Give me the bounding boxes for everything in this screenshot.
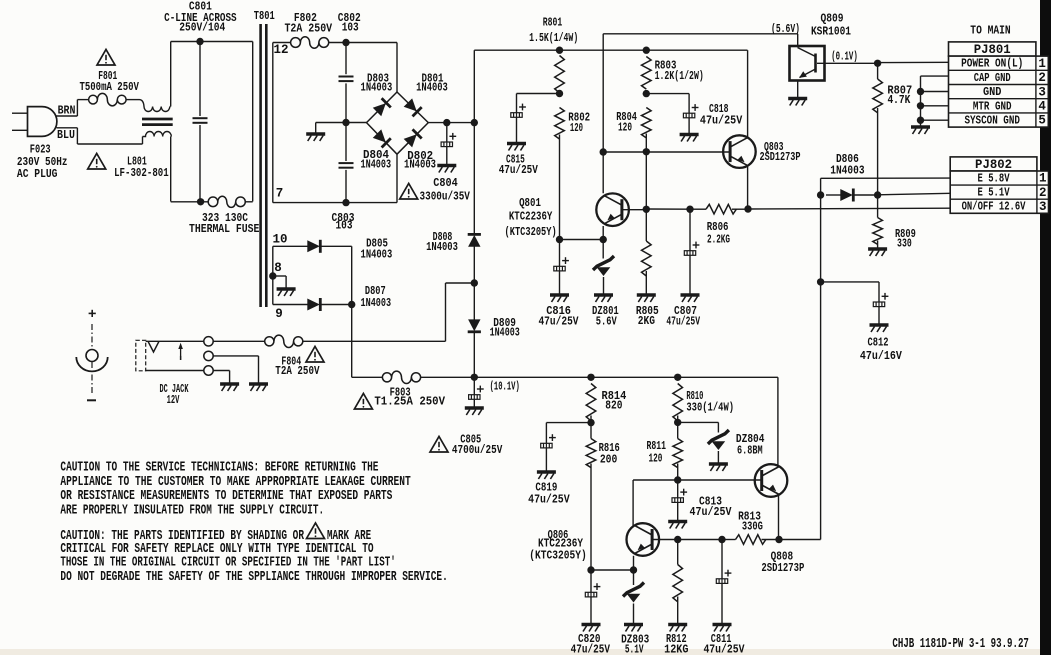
- svg-text:1N4003: 1N4003: [416, 81, 448, 95]
- svg-text:47u/25V: 47u/25V: [690, 505, 733, 519]
- svg-text:47u/25V: 47u/25V: [538, 314, 579, 328]
- svg-text:F023: F023: [30, 142, 51, 156]
- svg-text:250V/104: 250V/104: [179, 21, 225, 35]
- svg-text:GND: GND: [983, 85, 1002, 99]
- svg-text:BLU: BLU: [57, 128, 75, 142]
- svg-text:THERMAL FUSE: THERMAL FUSE: [189, 222, 260, 236]
- svg-text:1.2K(1/2W): 1.2K(1/2W): [655, 69, 704, 83]
- svg-text:4.7K: 4.7K: [887, 93, 911, 107]
- svg-text:Q809: Q809: [821, 12, 844, 26]
- svg-text:47u/16V: 47u/16V: [860, 349, 903, 363]
- svg-text:4700u/25V: 4700u/25V: [452, 443, 503, 457]
- svg-text:CHJB 1181D-PW 3-1 93.9.27: CHJB 1181D-PW 3-1 93.9.27: [892, 637, 1029, 652]
- svg-text:OR RESISTANCE MEASUREMENTS TO: OR RESISTANCE MEASUREMENTS TO DETERMINE …: [60, 489, 392, 504]
- svg-text:330(1/4W): 330(1/4W): [686, 400, 734, 414]
- svg-text:5.6V: 5.6V: [596, 314, 618, 328]
- svg-text:1N4003: 1N4003: [361, 81, 393, 95]
- svg-text:CAP GND: CAP GND: [974, 71, 1011, 85]
- svg-text:1.5K(1/4W): 1.5K(1/4W): [529, 31, 578, 45]
- svg-text:THOSE IN THE ORIGINAL CIRCUIT: THOSE IN THE ORIGINAL CIRCUIT OR SPECIFI…: [60, 556, 395, 571]
- svg-text:(5.6V): (5.6V): [771, 22, 800, 36]
- svg-text:2: 2: [1039, 186, 1047, 200]
- svg-text:4: 4: [1038, 100, 1046, 114]
- svg-text:1N4003: 1N4003: [426, 240, 458, 254]
- svg-text:PJ801: PJ801: [974, 42, 1011, 57]
- svg-text:12V: 12V: [167, 393, 180, 407]
- svg-text:MARK ARE: MARK ARE: [327, 529, 371, 544]
- svg-text:47u/25V: 47u/25V: [703, 642, 745, 655]
- svg-text:820: 820: [605, 398, 622, 412]
- svg-text:APPLIANCE TO THE CUSTOMER TO M: APPLIANCE TO THE CUSTOMER TO MAKE APPROP…: [60, 475, 410, 490]
- svg-text:CAUTION: THE PARTS IDENTIFIED: CAUTION: THE PARTS IDENTIFIED BY SHADING…: [60, 529, 304, 544]
- svg-text:7: 7: [276, 186, 284, 200]
- svg-text:1N4003: 1N4003: [830, 164, 864, 178]
- svg-text:CAUTION TO THE SERVICE TECHNIC: CAUTION TO THE SERVICE TECHNICIANS: BEFO…: [60, 460, 378, 475]
- svg-text:5.1V: 5.1V: [625, 642, 644, 655]
- svg-text:KTC2236Y: KTC2236Y: [509, 209, 553, 223]
- svg-text:1N4003: 1N4003: [404, 157, 436, 171]
- svg-text:POWER ON(L): POWER ON(L): [961, 57, 1023, 71]
- svg-text:KSR1001: KSR1001: [811, 24, 851, 38]
- svg-text:ARE PROPERLY INSULATED FROM TH: ARE PROPERLY INSULATED FROM THE SUPPLY C…: [60, 504, 324, 519]
- svg-text:47u/25V: 47u/25V: [571, 642, 611, 655]
- svg-text:SYSCON GND: SYSCON GND: [964, 114, 1020, 128]
- svg-text:12: 12: [273, 43, 288, 57]
- svg-text:120: 120: [618, 121, 632, 135]
- svg-text:9: 9: [275, 307, 283, 321]
- svg-text:T500mA 250V: T500mA 250V: [79, 80, 139, 94]
- svg-text:(KTC3205Y): (KTC3205Y): [529, 549, 586, 563]
- svg-text:103: 103: [342, 21, 359, 35]
- svg-text:T2A 250V: T2A 250V: [284, 21, 332, 35]
- svg-text:T1.25A 250V: T1.25A 250V: [374, 395, 445, 409]
- svg-text:12KG: 12KG: [664, 642, 688, 655]
- svg-text:120: 120: [649, 452, 663, 466]
- svg-text:2.2KG: 2.2KG: [707, 233, 730, 247]
- svg-text:5: 5: [1038, 114, 1046, 128]
- svg-text:(0.1V): (0.1V): [831, 50, 858, 64]
- svg-text:DO NOT DEGRADE THE SAFETY OF T: DO NOT DEGRADE THE SAFETY OF THE SPPLIAN…: [60, 570, 447, 585]
- svg-text:T801: T801: [254, 9, 275, 23]
- svg-text:2KG: 2KG: [638, 314, 655, 328]
- svg-text:2: 2: [1038, 71, 1046, 85]
- svg-text:330G: 330G: [742, 520, 763, 534]
- svg-text:3: 3: [1039, 200, 1047, 214]
- svg-text:T2A 250V: T2A 250V: [275, 364, 320, 378]
- svg-text:103: 103: [336, 219, 353, 233]
- svg-text:PJ802: PJ802: [975, 157, 1012, 172]
- svg-text:10: 10: [272, 232, 287, 246]
- svg-text:47u/25V: 47u/25V: [666, 314, 700, 328]
- svg-text:E 5.1V: E 5.1V: [978, 186, 1011, 200]
- svg-text:(10.1V): (10.1V): [490, 380, 520, 394]
- svg-text:8: 8: [274, 261, 282, 275]
- svg-text:47u/25V: 47u/25V: [499, 163, 539, 177]
- svg-text:330: 330: [897, 236, 912, 250]
- svg-text:2SD1273P: 2SD1273P: [759, 150, 800, 164]
- svg-text:3: 3: [1038, 85, 1046, 99]
- svg-text:AC PLUG: AC PLUG: [17, 167, 58, 181]
- svg-text:1: 1: [1039, 172, 1047, 186]
- svg-text:1N4003: 1N4003: [361, 157, 392, 171]
- svg-text:1N4003: 1N4003: [361, 248, 393, 262]
- svg-text:47u/25V: 47u/25V: [700, 114, 743, 128]
- svg-text:200: 200: [600, 452, 618, 466]
- svg-text:R801: R801: [543, 16, 563, 30]
- svg-text:6.8BM: 6.8BM: [737, 443, 763, 457]
- svg-text:C804: C804: [433, 176, 458, 190]
- svg-text:Q801: Q801: [519, 196, 541, 210]
- svg-text:1N4003: 1N4003: [361, 296, 392, 310]
- svg-text:2SD1273P: 2SD1273P: [761, 561, 804, 575]
- svg-text:TO MAIN: TO MAIN: [970, 24, 1010, 38]
- svg-text:C812: C812: [868, 335, 889, 349]
- svg-text:120: 120: [570, 121, 583, 135]
- svg-text:(KTC3205Y): (KTC3205Y): [505, 225, 557, 239]
- svg-text:47u/25V: 47u/25V: [528, 493, 570, 507]
- svg-text:LF-302-801: LF-302-801: [114, 166, 169, 180]
- svg-text:1: 1: [1038, 57, 1046, 71]
- svg-text:E 5.8V: E 5.8V: [978, 172, 1011, 186]
- svg-text:3300u/35V: 3300u/35V: [420, 190, 471, 204]
- svg-text:1N4003: 1N4003: [490, 326, 520, 340]
- svg-text:ON/OFF 12.6V: ON/OFF 12.6V: [962, 200, 1026, 214]
- svg-text:MTR GND: MTR GND: [973, 99, 1012, 113]
